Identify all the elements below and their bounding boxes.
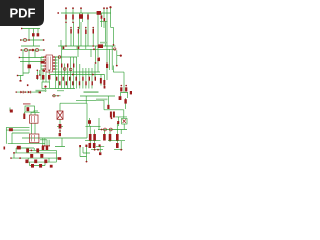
- opto box O2: [30, 134, 39, 143]
- bottom cluster components: [10, 148, 61, 167]
- comb bar row2 y81.3: [59, 81, 60, 85]
- connector K1 pins: [116, 65, 118, 67]
- low-right component rows: [88, 120, 122, 150]
- bar x125.5: [124, 99, 126, 103]
- wire vertical x108.3: [107, 96, 109, 105]
- dots rail B: [28, 39, 30, 41]
- wire top cap link: [100, 20, 108, 22]
- wire opto rail drops: [6, 123, 35, 144]
- wire box B1 tail: [45, 89, 47, 93]
- cap top dots: [65, 7, 67, 9]
- wire left cluster rail A: [22, 28, 40, 30]
- diode D2: [72, 15, 74, 20]
- wire vertical x86.2: [85, 96, 87, 103]
- red cluster mid: [110, 112, 112, 118]
- resistor bars x101: [100, 78, 102, 84]
- wire left short link: [23, 68, 29, 73]
- wire left cluster rail B: [21, 39, 44, 41]
- wire left cluster drops: [29, 29, 38, 47]
- X in box B2: [123, 119, 126, 123]
- small bars y46.5: [63, 47, 65, 50]
- wire U1 stubs right: [55, 57, 58, 69]
- circle comp comb a: [58, 56, 61, 59]
- diode D4: [32, 33, 35, 36]
- circle comp connector: [114, 48, 116, 50]
- comps y154: [30, 154, 33, 158]
- ground tick: [17, 75, 18, 76]
- diode row dot: [24, 91, 26, 93]
- dot rail y129.5: [101, 129, 103, 131]
- marks right: [58, 157, 62, 160]
- left-mid top dots: [39, 74, 41, 76]
- wire left rail F: [20, 61, 45, 63]
- green text smudge comb: [84, 91, 99, 93]
- dot x107 y63: [106, 62, 108, 64]
- op-amp U1 body: [46, 55, 53, 72]
- diode bar right of C2: [101, 15, 103, 18]
- wire vertical x95.5: [95, 46, 97, 63]
- caps straddling y148 rails: [26, 148, 29, 152]
- bottom caps row: [42, 146, 45, 150]
- dots rail D: [29, 49, 31, 51]
- marks x117: [117, 121, 119, 124]
- bar row y143: [89, 143, 92, 148]
- mark left edge: [4, 147, 6, 150]
- resistor on U1 bus: [41, 61, 45, 64]
- wire rail y96: [80, 95, 115, 97]
- diode on x108.3: [107, 105, 109, 109]
- circle comp comb c: [69, 68, 72, 71]
- wire left cluster rail D: [22, 49, 45, 51]
- comb junction dots: [72, 74, 74, 76]
- wire red box stub: [10, 108, 38, 112]
- small mark above diode row: [27, 84, 29, 86]
- comps y159.5: [25, 160, 28, 164]
- wire low-right verticals a: [90, 118, 118, 134]
- left-mid bars: [36, 75, 38, 79]
- junction dot in box B1: [44, 86, 46, 88]
- wire mid-block lower links: [61, 27, 113, 57]
- wire left cluster rail C: [21, 45, 40, 47]
- diode D5: [37, 33, 40, 36]
- dot y152.9: [13, 152, 15, 154]
- comb bar row1 y76.7: [56, 77, 57, 81]
- wire opto rails: [6, 127, 29, 133]
- wire connector K1: [117, 50, 121, 65]
- transistor Q1 blob: [28, 65, 32, 69]
- wire right-mid gamma: [113, 66, 128, 101]
- dot mid stub: [57, 95, 59, 97]
- ticks rail D: [21, 49, 22, 50]
- left cluster tick A: [21, 28, 22, 29]
- PDF badge: [0, 0, 44, 26]
- capacitor C3 big blob: [98, 44, 103, 48]
- comps y164: [31, 164, 34, 168]
- bar row y134: [89, 134, 92, 141]
- tick top right: [109, 6, 111, 8]
- small marks x10: [10, 110, 13, 113]
- wire top cap stubs: [66, 7, 111, 13]
- wire cap drops: [43, 138, 49, 146]
- circle comp mid stub: [53, 95, 55, 97]
- wire transformer top leads: [24, 112, 39, 115]
- wire bottom-right 2: [96, 147, 104, 152]
- wire U1 stubs left: [41, 57, 44, 69]
- resistor row mid y63.5: [61, 64, 62, 68]
- AC input X-box: [57, 111, 63, 119]
- wire rail y143.7: [8, 143, 45, 145]
- wire right verticals pair: [109, 46, 112, 70]
- U1 pin circles: [44, 56, 55, 70]
- capacitor blob C1: [79, 14, 83, 19]
- mid-block bar row y29: [70, 29, 72, 34]
- wire top rail: [61, 12, 111, 14]
- circle comp rail y129.5 a: [104, 128, 107, 131]
- wire comb rail y74.5: [50, 74, 105, 76]
- wire x62 drop: [55, 138, 65, 147]
- wire X-box leads: [57, 103, 63, 133]
- green text smudge leftmid: [36, 90, 47, 92]
- bottom-right cluster components: [79, 144, 101, 162]
- wire left cluster drops 2: [23, 50, 35, 75]
- comp below y96: [119, 96, 122, 100]
- rail y149.7 dots: [94, 149, 96, 151]
- wire green box B1: [42, 82, 50, 89]
- green box B2 (right) with X: [122, 118, 127, 124]
- diode row rail y92: [16, 91, 41, 93]
- tick y158.1: [10, 157, 11, 158]
- wire low-right verticals b: [90, 124, 124, 150]
- wire rail y126.3: [85, 125, 100, 127]
- wire rail y140.7 segs: [85, 140, 125, 142]
- wire rail y49.3: [62, 48, 116, 50]
- lamp L2: [24, 48, 27, 51]
- wire mid-block hang columns: [71, 22, 106, 47]
- wire rail y139.8: [40, 139, 47, 141]
- wire long vertical x87: [86, 103, 88, 138]
- dot y158.1: [19, 157, 21, 159]
- wire rail y149.7 segs: [91, 149, 123, 151]
- resistor on x107: [106, 64, 108, 68]
- mark x104 low: [104, 86, 106, 89]
- tick rail E: [19, 57, 20, 58]
- wire left cluster rail E: [20, 57, 45, 59]
- opto box O1: [30, 115, 39, 123]
- wire comb verticals: [56, 57, 98, 89]
- mid-block pin dots y27.5: [70, 27, 72, 29]
- wire right-low branch: [104, 98, 127, 126]
- mark right edge: [130, 91, 132, 94]
- diode D1: [65, 15, 67, 20]
- bars under gamma: [120, 87, 122, 91]
- diode D3: [87, 15, 89, 20]
- red text smudge: [23, 103, 31, 105]
- wire rail y138: [22, 137, 87, 139]
- wire comb rail y88.5: [50, 88, 75, 90]
- comp lowleft: [17, 146, 21, 150]
- thick red bar T1 primary: [23, 114, 25, 120]
- small bits x43 y70: [43, 70, 45, 72]
- capacitor blob comb right: [97, 58, 100, 62]
- wire comb rail y90.8: [57, 90, 64, 92]
- dot y49.3: [93, 48, 95, 50]
- blob rail D: [32, 49, 35, 52]
- wire rail y129.5: [98, 129, 127, 131]
- wire top columns: [66, 13, 113, 80]
- comp top x89.5: [88, 120, 91, 124]
- diode row ticks: [16, 91, 17, 92]
- transformer / opto section: [4, 103, 50, 150]
- comb red bars: [36, 42, 108, 100]
- dot x95.5 bottom: [95, 62, 97, 64]
- rail left end dot: [57, 12, 59, 14]
- wire bottom cluster verticals: [14, 148, 60, 166]
- wire left-mid verticals: [37, 70, 49, 82]
- junction dots rail y40.8: [65, 45, 67, 47]
- diode bar x104: [104, 18, 106, 21]
- wire rail y100.3: [76, 99, 104, 101]
- lamp L3: [35, 48, 38, 51]
- resistor on opto rail: [9, 128, 13, 131]
- wire bottom cluster rails: [11, 148, 61, 166]
- ground foot mark: [20, 80, 22, 82]
- green text smudge center: [96, 99, 108, 101]
- green text smudge near C3: [100, 42, 107, 44]
- wire comb rail y57: [55, 56, 77, 58]
- diode pair DP1: [20, 91, 23, 94]
- X-box series comp: [59, 124, 62, 136]
- wire comb rail y72: [53, 71, 100, 73]
- ground symbol left: [18, 76, 24, 81]
- circle comp rail y129.5 b: [109, 128, 112, 131]
- wire middle stub y95.8: [52, 95, 61, 97]
- regulator box (green outline, red bar inside): [25, 106, 35, 112]
- wire right-mid columns: [101, 75, 105, 89]
- op-amp U1 stub bus: [40, 57, 42, 80]
- right-mid components: [57, 78, 132, 130]
- wire rail y103.2: [60, 102, 87, 104]
- svg-text:PDF: PDF: [10, 6, 36, 21]
- wire bottom-right U: [80, 147, 90, 161]
- tick rail B: [20, 39, 21, 40]
- lamp L1: [23, 38, 26, 41]
- circle comp comb b: [63, 68, 66, 71]
- wire rail y46: [58, 45, 116, 47]
- capacitor C2 solid: [97, 11, 101, 15]
